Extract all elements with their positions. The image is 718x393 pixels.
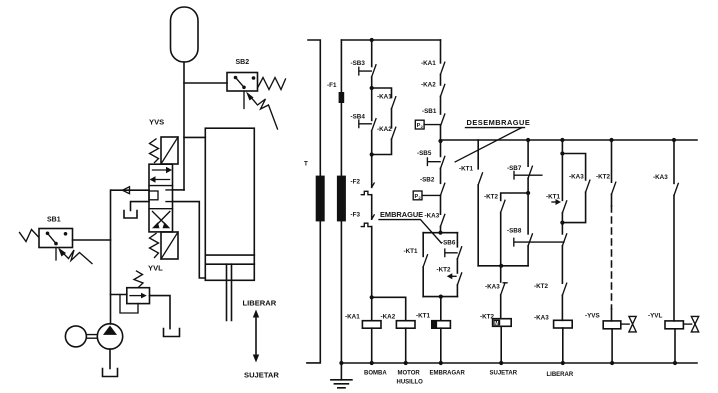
contact SB8 linked (NO) (562, 234, 566, 246)
contact KA3 col4 (NO) (441, 214, 445, 226)
valve symbol YVS (621, 316, 636, 332)
wire SB8 to net (527, 246, 529, 266)
svg-text:-KA2: -KA2 (377, 126, 392, 133)
contact KA2 col4 (NO) (441, 84, 445, 96)
wire branch KA1 to KA2 (391, 109, 393, 128)
svg-text:YVL: YVL (148, 264, 163, 273)
contact KT2 col562 (NO) (562, 283, 566, 295)
wire col4 KA1-KA2 (440, 74, 442, 85)
wire embrague box top (423, 232, 457, 234)
junction rail2 col562 (560, 138, 564, 142)
wire col611 top (611, 140, 613, 182)
wire KA2 coil to rail (405, 328, 407, 363)
svg-text:-YVS: -YVS (585, 312, 600, 319)
junction box top (438, 231, 442, 235)
wire col674 top (673, 140, 675, 183)
junction col3 node B (370, 152, 374, 156)
label DESEMBRAGUE (455, 118, 530, 162)
wire col562 to KA3 coil (561, 295, 563, 320)
svg-text:-KA1: -KA1 (345, 313, 360, 320)
wire KA3 to KT2 coil (500, 295, 502, 319)
svg-text:-SB2: -SB2 (420, 176, 435, 183)
wire col3 F2 to F3 (371, 195, 373, 220)
wire col3 top (371, 40, 373, 67)
fuse F1 (339, 92, 345, 103)
svg-text:-KA2: -KA2 (421, 82, 436, 89)
wire bottom rail (341, 362, 697, 364)
solenoid YVS top (161, 137, 178, 164)
svg-text:EMBRAGAR: EMBRAGAR (430, 371, 466, 377)
wire KT1 branch top (477, 140, 479, 169)
junction rail2 col674 (672, 138, 676, 142)
junction bottom rail at L2 (339, 361, 343, 365)
contact KT2 (NO) (501, 200, 505, 212)
svg-text:-KA3: -KA3 (569, 174, 584, 181)
junction col4 rail2 (438, 139, 442, 143)
pushbutton SB8 (NO, double pole) (514, 234, 564, 246)
pushbutton SB7 (NO) (514, 166, 542, 179)
contact KA3 (NC) (501, 283, 507, 295)
svg-text:-KT1: -KT1 (404, 248, 418, 255)
wire KT2 coil to rail (500, 326, 502, 363)
pressure switch SB1 (20, 229, 93, 264)
svg-text:-KA2: -KA2 (381, 313, 396, 320)
wire SB1 to pilot line (73, 239, 111, 241)
pressure switch contact SB1 (441, 114, 445, 126)
contact KT1 (NO) (423, 255, 427, 267)
contact KA3 col674 (NO) (674, 183, 678, 195)
wire loop SB7 junction to KT2 contact (501, 193, 528, 201)
wire control line L2 (340, 40, 342, 363)
svg-text:-SB4: -SB4 (351, 113, 366, 120)
svg-text:-F3: -F3 (351, 212, 361, 219)
overload F2 (361, 183, 374, 195)
svg-text:-KA1: -KA1 (421, 60, 436, 67)
svg-text:-KT2: -KT2 (596, 174, 610, 181)
wire top rail (341, 39, 440, 41)
svg-text:-F2: -F2 (351, 178, 361, 185)
contact KT1 delayed (NO) (552, 154, 567, 213)
spring YVS top (150, 139, 159, 163)
svg-text:-KA3: -KA3 (485, 283, 500, 290)
junction net sujetar (499, 264, 503, 268)
wire branch to KA2 coil (372, 297, 406, 320)
wire box to KT1 coil (440, 297, 442, 321)
contact KA3 loop (NO) (586, 180, 590, 192)
junction top rail col3 (370, 38, 374, 42)
wire YVL coil to rail (674, 329, 676, 363)
svg-text:-KT1: -KT1 (546, 193, 560, 200)
svg-text:SB2: SB2 (236, 59, 250, 66)
coil KA3 (554, 320, 573, 328)
coil YVL (665, 321, 683, 329)
wire col562 to KT2 contact (561, 246, 563, 283)
wire KA3 loop top (562, 154, 585, 181)
relief valve YVL (120, 271, 150, 313)
wire col674 to YVL coil (673, 195, 675, 321)
junction rail2 SB7 (526, 138, 530, 142)
junction rail KA1 (370, 361, 374, 365)
coil YVS (603, 321, 621, 329)
wire KT1 branch down (477, 185, 479, 266)
wire box right edge upper (456, 233, 458, 247)
svg-text:HUSILLO: HUSILLO (397, 380, 424, 386)
wire KT2 contact down (500, 212, 502, 282)
svg-text:-KA3: -KA3 (425, 213, 440, 220)
wire YVL outlet and tank (150, 296, 180, 337)
wire pilot vertical (110, 190, 112, 324)
wire KT1 coil to rail (440, 328, 442, 363)
wire SB7 to SB8 (527, 178, 529, 234)
wire col4 KA2-SB1 (440, 96, 442, 114)
pressure switch contact SB2 (441, 183, 445, 195)
svg-text:-YVL: -YVL (648, 312, 662, 319)
pushbutton SB3 (NC) (359, 65, 376, 77)
svg-text:-KT1: -KT1 (416, 313, 430, 320)
wire col3 SB4 down to F2 (371, 131, 373, 188)
wire col3 SB3 to SB4 (371, 77, 373, 121)
double arrow liberar/sujetar (253, 310, 259, 363)
junction rail YVL (673, 361, 677, 365)
contact KA1 col4 (NO) (441, 62, 445, 74)
wire box right edge lower (456, 285, 458, 297)
junction rail KT2 (499, 361, 503, 365)
pilot line with arrow (111, 187, 149, 194)
wire valve P port to stem (173, 189, 185, 191)
pressure box P2 (SB1) (415, 120, 440, 129)
wire col4 SB2 to KA3 (440, 195, 442, 214)
junction col3 coil branch (370, 295, 374, 299)
svg-text:YVS: YVS (149, 118, 164, 127)
svg-text:SB1: SB1 (47, 217, 61, 224)
wire col562 mid (561, 213, 563, 234)
wire col4 KA3 to box (440, 226, 442, 232)
svg-text:M: M (494, 321, 498, 327)
svg-text:-KT1: -KT1 (459, 166, 473, 173)
wire col4 SB5 to SB2 (440, 168, 442, 183)
junction rail KA2 (404, 361, 408, 365)
wire SB7 column top (527, 140, 529, 166)
wire col611 dashed to YVS (611, 194, 613, 321)
cylinder (205, 128, 254, 320)
junction box bottom (439, 295, 443, 299)
svg-text:-SB6: -SB6 (441, 240, 456, 247)
label MOTOR HUSILLO (397, 371, 424, 386)
pressure switch SB2 (227, 73, 286, 130)
wire pump to tank (103, 349, 118, 376)
junction rail KA3 (561, 361, 565, 365)
svg-text:SUJETAR: SUJETAR (490, 371, 518, 377)
svg-text:LIBERAR: LIBERAR (547, 372, 574, 378)
transformer T winding 2 (337, 176, 346, 222)
label EMBRAGUE (379, 210, 441, 243)
coil KT2 with M (493, 319, 512, 327)
contact KA1 (NO) (392, 97, 396, 109)
junction col3 node A (370, 86, 374, 90)
svg-text:BOMBA: BOMBA (364, 371, 387, 377)
wire rail2 (441, 139, 698, 141)
wire box right SB6 to KT2 (456, 259, 458, 273)
pushbutton SB5 (NO) (427, 156, 444, 168)
wire col3 down to KA1 coil (371, 227, 373, 321)
contact KT2 delayed (NO) (447, 273, 462, 285)
svg-text:-SB1: -SB1 (422, 108, 437, 115)
junction SB7 node (526, 191, 530, 195)
svg-text:-KA1: -KA1 (377, 94, 392, 101)
wire parallel branch bottom (372, 139, 392, 154)
wire embrague box bottom (423, 296, 457, 298)
svg-text:-KA3: -KA3 (653, 174, 668, 181)
wire col562 top (561, 140, 563, 154)
svg-text:-KT2: -KT2 (484, 194, 498, 201)
wire YVL inlet (111, 294, 127, 296)
ground (331, 363, 352, 388)
wire box left edge lower (422, 267, 424, 297)
valve symbol YVL (683, 316, 698, 332)
junction rail KT1 (439, 361, 443, 365)
pressure box P2 (SB2) (413, 191, 440, 200)
wire col4 top (440, 40, 442, 63)
drain line and tank (124, 202, 149, 218)
junction col562 loop bottom (560, 221, 564, 225)
pump (97, 324, 122, 349)
coil KT1 (432, 321, 451, 329)
svg-text:-SB8: -SB8 (507, 228, 522, 235)
svg-text:MOTOR: MOTOR (398, 371, 421, 377)
motor (65, 326, 86, 347)
svg-text:-KA3: -KA3 (534, 314, 549, 321)
svg-text:-KT2: -KT2 (534, 283, 548, 290)
wire L1 phase line (307, 40, 320, 363)
svg-text:LIBERAR: LIBERAR (243, 299, 277, 308)
svg-text:SUJETAR: SUJETAR (244, 371, 279, 380)
accumulator (171, 7, 199, 62)
wire KA3 coil to rail (562, 328, 564, 363)
contact KA2 (NO) (392, 127, 396, 139)
transformer T winding 1 (316, 176, 325, 222)
solenoid valve YVS body (149, 164, 173, 232)
svg-text:EMBRAGUE: EMBRAGUE (380, 210, 423, 219)
contact KT2 col611 (NO) (612, 182, 616, 194)
wire valve A port to cylinder bottom (173, 202, 206, 278)
solenoid YVS bottom (161, 232, 178, 259)
junction rail2 col611 (609, 138, 613, 142)
contact KT1 branch (NO) (478, 173, 482, 185)
wire YVS coil to rail (611, 329, 613, 363)
wire parallel branch top (372, 88, 392, 97)
wire box left edge upper (422, 233, 424, 257)
wire cylinder top port (184, 136, 205, 138)
coil KA1 (362, 321, 381, 329)
pushbutton SB6 (NO) (445, 247, 462, 259)
svg-text:DESEMBRAGUE: DESEMBRAGUE (467, 118, 531, 127)
svg-text:T: T (304, 161, 308, 168)
wire accumulator stem (P line) (183, 62, 185, 190)
overload F3 (361, 215, 374, 227)
pushbutton SB4 (NC) (359, 119, 376, 131)
wire net bottom sujetar (478, 265, 528, 267)
wire KA3 loop bottom (562, 192, 585, 223)
junction col562 loop top (560, 151, 564, 155)
wire KA1 coil to rail (371, 328, 373, 363)
svg-text:-SB3: -SB3 (351, 60, 366, 67)
shaft motor-pump (86, 335, 97, 339)
spring YVS bottom (150, 234, 159, 258)
svg-text:-KT2: -KT2 (437, 266, 451, 273)
coil KA2 (396, 321, 415, 329)
svg-text:-SB5: -SB5 (417, 150, 432, 157)
wire col4 SB1 to SB5 (440, 126, 442, 156)
junction rail YVS (610, 361, 614, 365)
wire tee to SB2 (184, 82, 227, 84)
svg-text:-F1: -F1 (327, 82, 337, 89)
